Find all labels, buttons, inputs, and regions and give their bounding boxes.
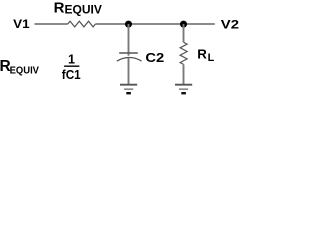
label RL (197, 47, 214, 64)
wire junction to RL (183, 24, 185, 42)
svg-text:R: R (197, 47, 207, 62)
junction node (RL tap) (180, 21, 187, 28)
junction node (C2 tap) (125, 21, 132, 28)
wire C2 to ground (128, 58, 130, 85)
label R_EQUIV (top) (54, 0, 103, 17)
svg-text:fC1: fC1 (62, 67, 81, 82)
svg-text:V2: V2 (221, 19, 239, 31)
capacitor C2 (117, 24, 142, 85)
svg-text:EQUIV: EQUIV (10, 66, 40, 77)
resistor RL (180, 24, 187, 85)
RL zigzag (180, 42, 187, 64)
svg-text:V1: V1 (13, 19, 30, 31)
formula R_EQUIV = 1/fC1 (0, 52, 81, 82)
ground (C2 branch) (120, 85, 137, 94)
C2 top plate (119, 52, 138, 54)
wire RL to ground (183, 64, 185, 84)
fraction bar (64, 65, 79, 67)
svg-text:1: 1 (68, 52, 75, 67)
resistor R_EQUIV (68, 21, 96, 27)
svg-text:C2: C2 (145, 50, 164, 65)
svg-text:L: L (208, 52, 215, 64)
svg-text:R: R (54, 0, 65, 16)
wire junction to C2 top plate (128, 24, 130, 56)
svg-text:EQUIV: EQUIV (65, 4, 103, 17)
wire R_EQUIV to V2 (95, 23, 214, 25)
wire V1 to R_EQUIV (35, 23, 68, 25)
C2 bottom plate (curved) (117, 57, 142, 61)
ground (RL branch) (175, 85, 192, 94)
